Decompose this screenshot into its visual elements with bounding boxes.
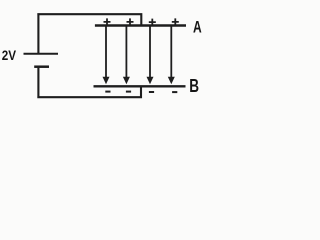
svg-text:B: B bbox=[189, 75, 199, 96]
wire: left vertical from battery + up, top horizontal, drop to plate A bbox=[37, 13, 142, 54]
plus charge 3 on plate A bbox=[149, 19, 156, 26]
field arrow 4 bbox=[168, 27, 175, 85]
svg-text:A: A bbox=[193, 19, 202, 37]
battery positive terminal (long line) bbox=[24, 53, 59, 55]
minus charge 2 on plate B bbox=[126, 91, 131, 93]
plus charge 1 on plate A bbox=[104, 18, 111, 25]
plus charge 4 on plate A bbox=[172, 18, 179, 25]
plate A (top capacitor plate) bbox=[95, 24, 186, 27]
field arrow 3 bbox=[147, 27, 154, 85]
svg-text:2V: 2V bbox=[2, 47, 17, 63]
wire: left vertical from battery - down, bottom horizontal, step up to plate B bbox=[37, 67, 142, 99]
field arrow 1 bbox=[103, 27, 110, 85]
minus charge 4 on plate B bbox=[172, 91, 177, 93]
plus charge 2 on plate A bbox=[127, 18, 134, 25]
plate B (bottom capacitor plate) bbox=[94, 85, 186, 87]
minus charge 3 on plate B bbox=[149, 91, 154, 93]
minus charge 1 on plate B bbox=[105, 91, 110, 93]
field arrow 2 bbox=[123, 27, 130, 85]
battery negative terminal (short line) bbox=[34, 65, 49, 68]
